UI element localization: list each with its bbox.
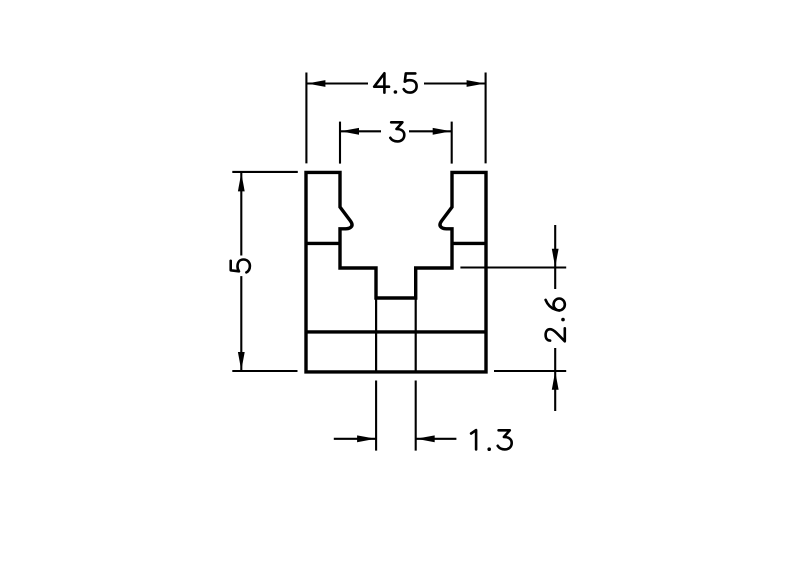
slot edge line left (thin, through bottom band)	[375, 299, 377, 372]
dimension 2.6: extension lines	[460, 268, 566, 372]
dimension 2.6: arrowheads	[552, 249, 559, 390]
dimension 3: arrowheads	[341, 128, 452, 135]
bottom band seam line	[306, 330, 486, 333]
dimension 4.5: dimension line	[307, 82, 485, 84]
dimension 1.3: dimension line	[334, 438, 457, 440]
dimension 3: extension lines	[340, 122, 452, 164]
dimension 4.5: arrowheads	[307, 80, 485, 87]
dimension 2.6: value label "2.6" (rotated)	[546, 299, 565, 342]
dimension 4.5: value label "4.5"	[374, 73, 416, 92]
dimension 1.3: extension lines	[376, 381, 416, 451]
dimension 3: dimension line	[341, 130, 452, 132]
dimension 5: dimension line	[240, 173, 242, 371]
dimension 5: extension lines	[232, 172, 297, 371]
dimension 1.3: arrowheads	[357, 435, 435, 442]
dimension 5: value label "5" (rotated)	[231, 260, 250, 273]
profile outline (clamp cross-section with barbed arms and stepped slot)	[306, 172, 486, 372]
seam line left arm	[306, 242, 340, 245]
slot edge line right (thin, through bottom band)	[415, 299, 417, 372]
seam line right arm	[452, 242, 486, 245]
dimension 3: value label "3"	[390, 122, 404, 141]
dimension 4.5: extension lines	[306, 73, 485, 164]
dimension 5: arrowheads	[238, 173, 245, 371]
dimension 1.3: value label "1.3"	[471, 430, 512, 449]
dimension 2.6: dimension line	[554, 225, 556, 411]
